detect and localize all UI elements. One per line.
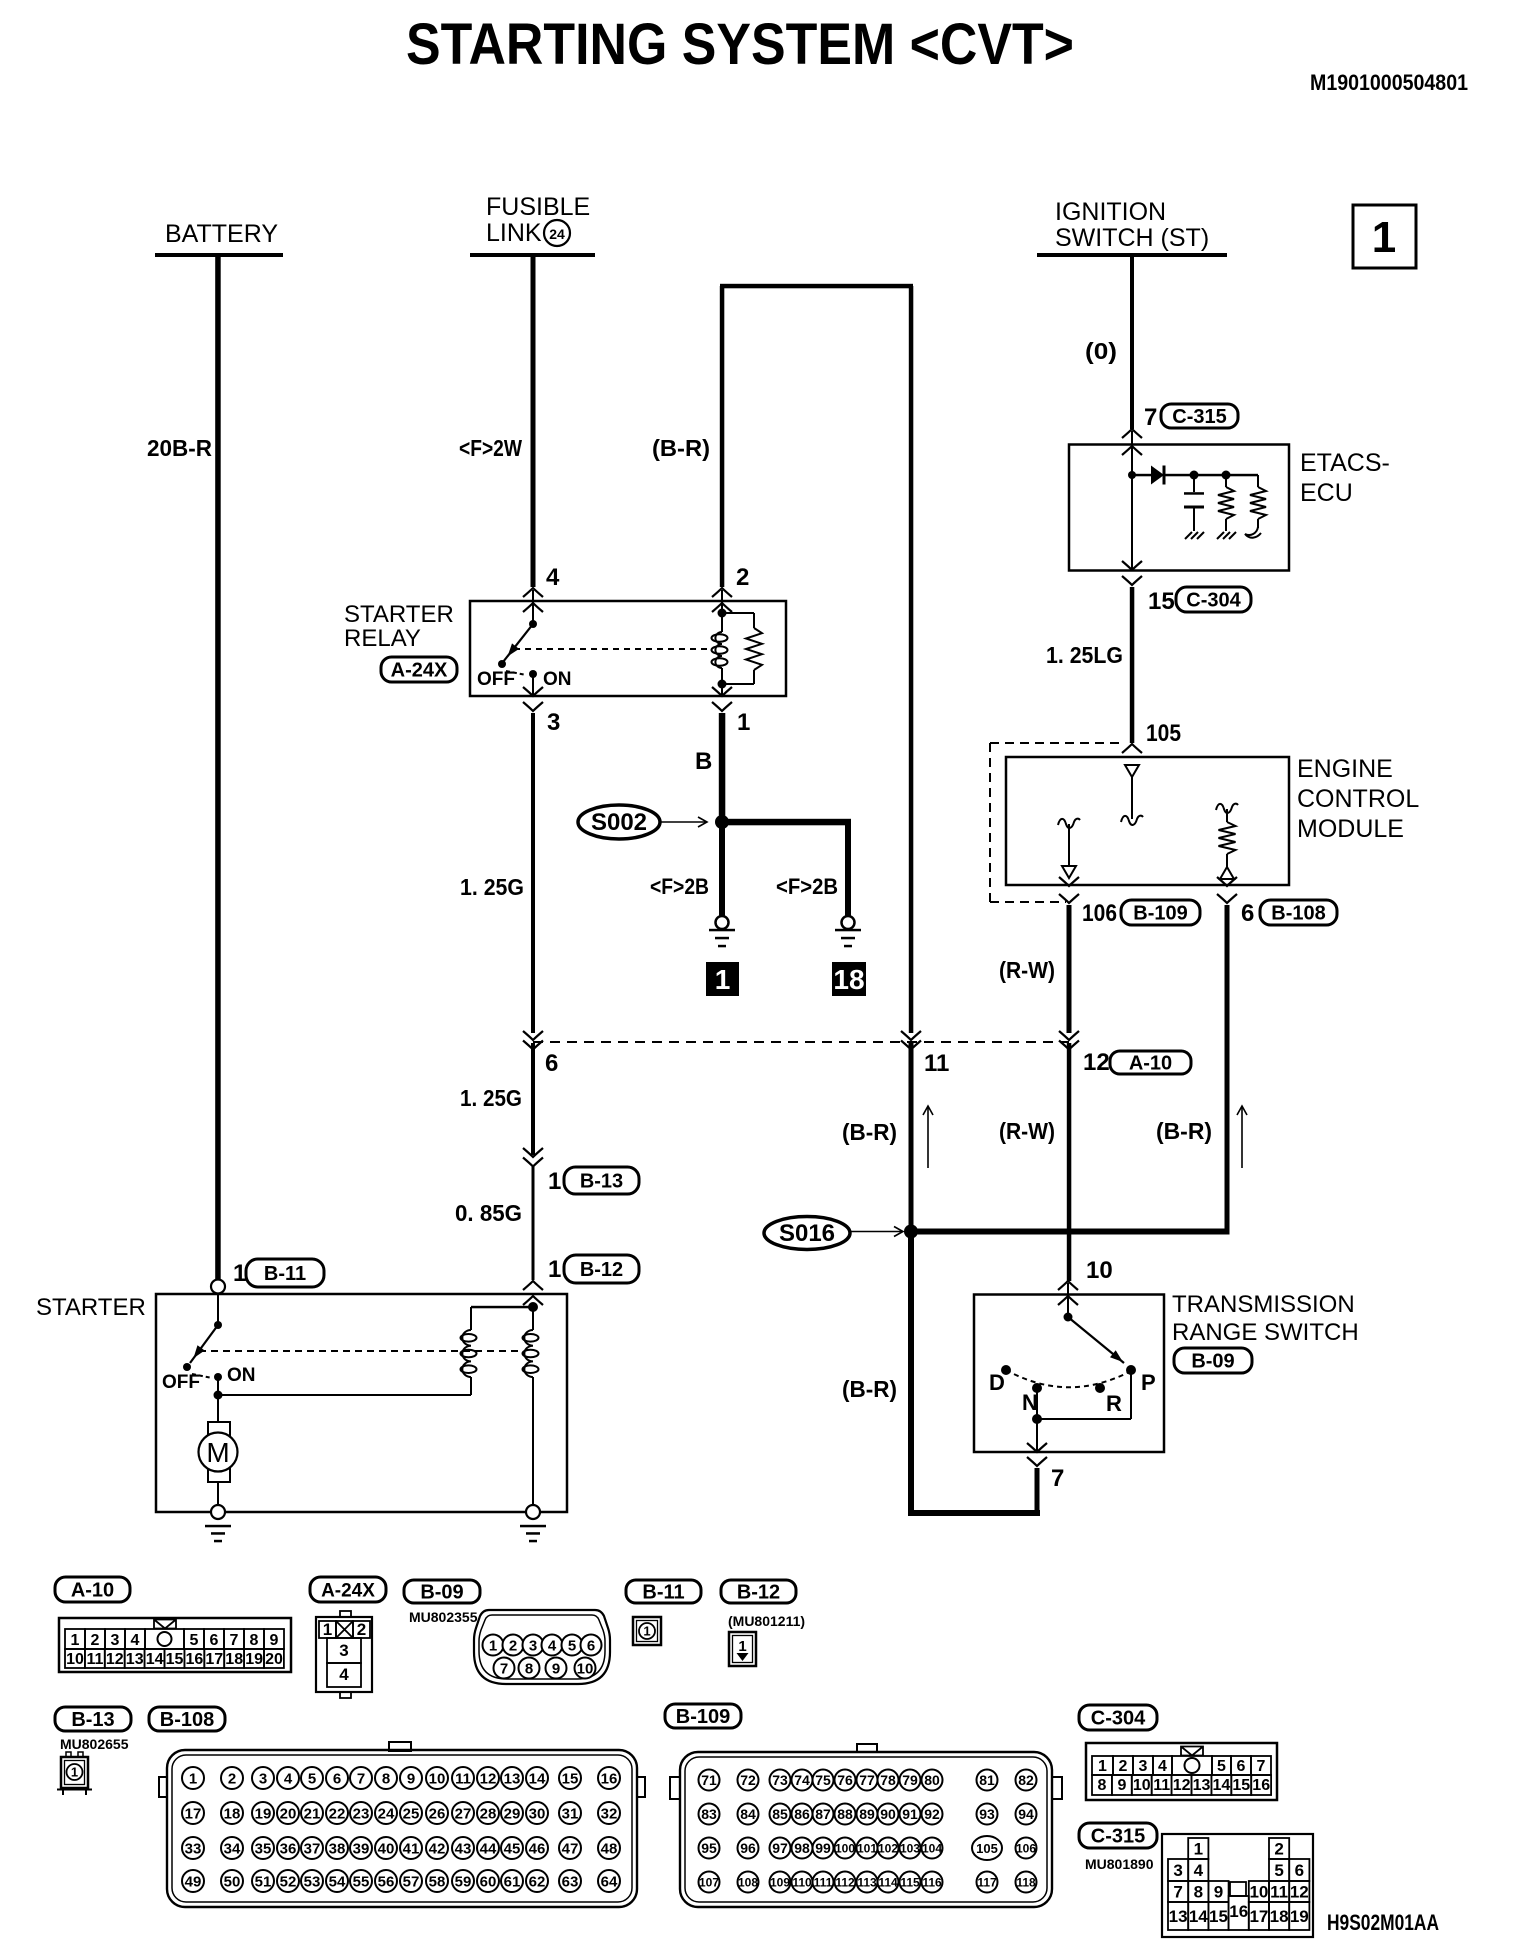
svg-text:7: 7 [500,1660,508,1677]
svg-text:5: 5 [1274,1861,1283,1880]
svg-text:16: 16 [1252,1777,1270,1794]
svg-text:LINK: LINK [486,219,542,247]
svg-text:C-315: C-315 [1172,406,1226,428]
svg-text:12: 12 [1083,1049,1110,1076]
svg-text:B-108: B-108 [1271,903,1325,925]
svg-text:26: 26 [429,1805,446,1822]
svg-text:15: 15 [1148,588,1175,615]
svg-text:1: 1 [189,1770,197,1787]
svg-text:111: 111 [814,1875,833,1889]
svg-text:1: 1 [715,964,731,995]
svg-text:72: 72 [740,1772,756,1788]
svg-text:RANGE SWITCH: RANGE SWITCH [1172,1319,1359,1346]
svg-text:11: 11 [924,1050,949,1077]
svg-text:51: 51 [255,1873,272,1890]
svg-text:90: 90 [880,1806,896,1822]
svg-text:17: 17 [185,1805,202,1822]
svg-text:4: 4 [546,564,560,591]
svg-text:6: 6 [587,1637,595,1654]
svg-text:4: 4 [548,1637,557,1654]
svg-text:91: 91 [902,1806,918,1822]
svg-text:108: 108 [738,1875,758,1889]
svg-text:4: 4 [339,1665,349,1684]
svg-text:6: 6 [333,1770,341,1787]
svg-text:1: 1 [548,1256,561,1283]
svg-text:14: 14 [1213,1777,1231,1794]
svg-text:1. 25LG: 1. 25LG [1046,642,1123,668]
svg-text:S016: S016 [779,1220,835,1247]
svg-text:57: 57 [403,1873,420,1890]
svg-text:6: 6 [545,1050,558,1077]
svg-text:6: 6 [1295,1861,1304,1880]
svg-text:107: 107 [699,1875,719,1889]
svg-text:1: 1 [71,1632,80,1649]
svg-text:116: 116 [922,1875,942,1889]
svg-text:19: 19 [1290,1907,1309,1926]
svg-text:11: 11 [1153,1777,1170,1794]
svg-text:17: 17 [205,1651,223,1668]
svg-text:(B-R): (B-R) [842,1376,897,1402]
svg-text:29: 29 [504,1805,521,1822]
svg-text:114: 114 [878,1875,898,1889]
svg-text:1: 1 [1098,1758,1107,1775]
svg-text:10: 10 [429,1770,446,1787]
svg-text:15: 15 [562,1770,579,1787]
svg-text:2: 2 [1274,1840,1283,1859]
svg-text:5: 5 [568,1637,576,1654]
svg-text:36: 36 [280,1840,297,1857]
svg-text:3: 3 [529,1637,537,1654]
svg-text:4: 4 [1158,1758,1167,1775]
svg-text:P: P [1141,1370,1156,1395]
svg-text:3: 3 [339,1641,348,1660]
svg-text:ECU: ECU [1300,479,1353,507]
svg-text:106: 106 [1082,900,1117,927]
svg-text:1: 1 [737,709,750,736]
svg-text:74: 74 [794,1772,810,1788]
svg-text:11: 11 [1270,1883,1288,1902]
svg-text:98: 98 [794,1840,810,1856]
svg-text:15: 15 [166,1651,184,1668]
svg-text:5: 5 [190,1632,199,1649]
svg-text:20B-R: 20B-R [147,435,212,461]
svg-text:14: 14 [1189,1907,1208,1926]
svg-text:60: 60 [480,1873,497,1890]
svg-text:4: 4 [131,1632,140,1649]
svg-text:C-304: C-304 [1186,590,1241,612]
svg-text:32: 32 [601,1805,618,1822]
svg-text:(0): (0) [1085,338,1117,364]
svg-text:78: 78 [880,1772,896,1788]
svg-text:24: 24 [549,226,565,242]
svg-text:1: 1 [1194,1840,1203,1859]
svg-text:40: 40 [378,1840,395,1857]
svg-text:94: 94 [1018,1806,1034,1822]
svg-text:104: 104 [922,1841,942,1855]
svg-text:110: 110 [792,1875,812,1889]
svg-text:14: 14 [529,1770,546,1787]
svg-text:3: 3 [1173,1861,1182,1880]
svg-text:5: 5 [1217,1758,1226,1775]
svg-text:2: 2 [1119,1758,1128,1775]
svg-text:9: 9 [552,1660,560,1677]
svg-text:9: 9 [407,1770,415,1787]
svg-text:76: 76 [837,1772,853,1788]
svg-text:<F>2B: <F>2B [650,874,709,899]
svg-text:7: 7 [1144,404,1157,431]
svg-text:C-304: C-304 [1091,1708,1146,1730]
svg-text:37: 37 [304,1840,321,1857]
svg-text:52: 52 [280,1873,297,1890]
svg-text:M: M [206,1437,229,1468]
svg-text:56: 56 [378,1873,395,1890]
svg-text:81: 81 [979,1772,995,1788]
svg-text:1: 1 [233,1260,246,1287]
svg-text:71: 71 [701,1772,717,1788]
svg-text:61: 61 [504,1873,521,1890]
svg-text:B-109: B-109 [1133,903,1187,925]
svg-text:14: 14 [146,1651,164,1668]
svg-text:63: 63 [562,1873,579,1890]
svg-text:16: 16 [601,1770,618,1787]
svg-text:7: 7 [1173,1883,1182,1902]
svg-text:S002: S002 [591,809,647,836]
svg-text:3: 3 [111,1632,120,1649]
svg-text:C-315: C-315 [1091,1826,1145,1848]
svg-text:10: 10 [1086,1257,1113,1284]
svg-text:100: 100 [835,1841,855,1855]
svg-text:(MU801211): (MU801211) [728,1613,805,1629]
svg-text:1. 25G: 1. 25G [460,1085,522,1111]
svg-text:82: 82 [1018,1772,1034,1788]
svg-text:73: 73 [772,1772,788,1788]
svg-text:RELAY: RELAY [344,625,421,652]
svg-text:STARTING SYSTEM <CVT>: STARTING SYSTEM <CVT> [406,12,1074,77]
svg-text:8: 8 [1098,1777,1107,1794]
svg-text:<F>2B: <F>2B [776,874,838,899]
svg-text:1: 1 [323,1620,332,1639]
svg-text:58: 58 [429,1873,446,1890]
svg-text:R: R [1106,1391,1122,1416]
svg-text:16: 16 [186,1651,204,1668]
svg-text:46: 46 [529,1840,546,1857]
svg-text:MU801890: MU801890 [1085,1856,1154,1872]
svg-text:2: 2 [736,564,749,591]
svg-text:ETACS-: ETACS- [1300,449,1390,477]
svg-text:B-13: B-13 [71,1709,114,1731]
svg-text:2: 2 [509,1637,517,1654]
svg-text:13: 13 [1193,1777,1211,1794]
svg-text:5: 5 [308,1770,316,1787]
svg-text:8: 8 [1194,1883,1203,1902]
svg-text:21: 21 [304,1805,321,1822]
svg-text:9: 9 [270,1632,279,1649]
svg-text:19: 19 [255,1805,272,1822]
svg-text:(R-W): (R-W) [999,957,1055,983]
svg-text:B-09: B-09 [420,1582,463,1604]
svg-text:105: 105 [1146,720,1181,747]
svg-text:64: 64 [601,1873,618,1890]
svg-text:22: 22 [329,1805,346,1822]
svg-text:B-11: B-11 [264,1263,306,1285]
svg-text:IGNITION: IGNITION [1055,198,1166,226]
svg-text:31: 31 [562,1805,579,1822]
svg-text:47: 47 [562,1840,579,1857]
svg-text:(R-W): (R-W) [999,1118,1055,1144]
svg-text:N: N [1022,1390,1038,1415]
svg-text:1: 1 [548,1168,561,1195]
svg-text:38: 38 [329,1840,346,1857]
svg-text:<F>2W: <F>2W [459,435,522,461]
svg-text:10: 10 [1249,1883,1268,1902]
svg-text:99: 99 [815,1840,831,1856]
svg-text:13: 13 [504,1770,521,1787]
svg-text:6: 6 [1241,900,1254,927]
svg-text:2: 2 [91,1632,100,1649]
svg-text:79: 79 [902,1772,918,1788]
svg-text:6: 6 [1237,1758,1246,1775]
svg-text:101: 101 [857,1841,877,1855]
svg-text:84: 84 [740,1806,756,1822]
svg-text:3: 3 [547,709,560,736]
svg-text:95: 95 [701,1840,717,1856]
svg-text:88: 88 [837,1806,853,1822]
svg-text:86: 86 [794,1806,810,1822]
svg-text:B-12: B-12 [580,1259,623,1281]
svg-text:9: 9 [1214,1883,1223,1902]
svg-text:MU802355: MU802355 [409,1609,478,1625]
svg-text:8: 8 [250,1632,259,1649]
svg-text:A-10: A-10 [71,1580,114,1602]
svg-text:9: 9 [1117,1777,1126,1794]
svg-text:55: 55 [353,1873,370,1890]
svg-text:10: 10 [577,1660,594,1677]
svg-text:77: 77 [859,1772,875,1788]
svg-text:ENGINE: ENGINE [1297,755,1393,783]
svg-text:TRANSMISSION: TRANSMISSION [1172,1291,1355,1318]
svg-text:FUSIBLE: FUSIBLE [486,193,590,221]
svg-text:15: 15 [1209,1907,1228,1926]
svg-text:12: 12 [1173,1777,1191,1794]
svg-text:1: 1 [71,1765,78,1780]
svg-text:3: 3 [1139,1758,1148,1775]
svg-text:43: 43 [455,1840,472,1857]
svg-text:41: 41 [403,1840,420,1857]
svg-text:48: 48 [601,1840,618,1857]
svg-text:2: 2 [357,1620,366,1639]
svg-text:89: 89 [859,1806,875,1822]
svg-text:75: 75 [815,1772,831,1788]
svg-text:(B-R): (B-R) [652,435,710,461]
svg-text:ON: ON [227,1365,256,1386]
svg-text:1: 1 [738,1638,746,1655]
svg-text:B-09: B-09 [1191,1351,1234,1373]
svg-text:11: 11 [86,1651,103,1668]
svg-text:10: 10 [66,1651,84,1668]
svg-text:33: 33 [185,1840,202,1857]
svg-text:7: 7 [230,1632,239,1649]
svg-text:(B-R): (B-R) [1156,1118,1212,1144]
svg-text:13: 13 [126,1651,144,1668]
svg-text:1: 1 [489,1637,497,1654]
svg-text:MODULE: MODULE [1297,815,1404,843]
svg-text:12: 12 [106,1651,124,1668]
svg-text:28: 28 [480,1805,497,1822]
svg-text:12: 12 [480,1770,497,1787]
svg-text:50: 50 [224,1873,241,1890]
svg-text:7: 7 [1051,1465,1064,1492]
svg-text:15: 15 [1232,1777,1250,1794]
svg-text:2: 2 [228,1770,236,1787]
svg-text:118: 118 [1016,1875,1036,1889]
svg-text:3: 3 [259,1770,267,1787]
svg-text:24: 24 [378,1805,395,1822]
svg-text:BATTERY: BATTERY [165,220,278,248]
svg-text:13: 13 [1169,1907,1188,1926]
svg-text:105: 105 [976,1841,998,1856]
svg-text:35: 35 [255,1840,272,1857]
svg-text:20: 20 [280,1805,297,1822]
svg-text:1: 1 [1372,213,1396,262]
svg-text:16: 16 [1229,1902,1248,1921]
svg-text:STARTER: STARTER [36,1294,146,1321]
svg-text:12: 12 [1290,1883,1309,1902]
svg-text:18: 18 [833,964,864,995]
svg-text:CONTROL: CONTROL [1297,785,1419,813]
svg-text:54: 54 [329,1873,346,1890]
svg-text:39: 39 [353,1840,370,1857]
svg-text:92: 92 [924,1806,940,1822]
svg-text:44: 44 [480,1840,497,1857]
svg-text:106: 106 [1016,1841,1036,1855]
svg-text:ON: ON [543,669,572,690]
svg-text:117: 117 [977,1875,997,1889]
svg-text:1. 25G: 1. 25G [460,874,524,900]
svg-text:MU802655: MU802655 [60,1736,129,1752]
svg-text:6: 6 [210,1632,219,1649]
svg-text:A-24X: A-24X [321,1580,375,1601]
svg-text:20: 20 [265,1651,283,1668]
svg-text:42: 42 [429,1840,446,1857]
svg-text:49: 49 [185,1873,202,1890]
svg-text:27: 27 [455,1805,472,1822]
svg-text:30: 30 [529,1805,546,1822]
svg-text:B-11: B-11 [642,1582,684,1604]
svg-text:B: B [695,748,712,775]
svg-text:113: 113 [857,1875,877,1889]
svg-text:B-109: B-109 [676,1706,730,1728]
svg-text:96: 96 [740,1840,756,1856]
svg-text:11: 11 [455,1770,471,1787]
svg-text:97: 97 [772,1840,788,1856]
svg-text:(B-R): (B-R) [842,1119,897,1145]
svg-text:B-108: B-108 [160,1709,214,1731]
svg-text:115: 115 [900,1875,920,1889]
svg-text:STARTER: STARTER [344,601,454,628]
svg-text:34: 34 [224,1840,241,1857]
svg-text:B-12: B-12 [737,1582,780,1604]
svg-text:18: 18 [225,1651,243,1668]
svg-text:23: 23 [353,1805,370,1822]
svg-text:62: 62 [529,1873,546,1890]
svg-text:8: 8 [525,1660,533,1677]
svg-text:87: 87 [815,1806,831,1822]
svg-text:45: 45 [504,1840,521,1857]
svg-text:D: D [989,1370,1005,1395]
svg-text:19: 19 [245,1651,263,1668]
svg-text:8: 8 [382,1770,390,1787]
svg-text:17: 17 [1249,1907,1268,1926]
svg-text:112: 112 [835,1875,855,1889]
svg-text:18: 18 [1270,1907,1289,1926]
svg-text:10: 10 [1133,1777,1151,1794]
svg-text:80: 80 [924,1772,940,1788]
svg-text:103: 103 [900,1841,920,1855]
svg-text:83: 83 [701,1806,717,1822]
svg-text:25: 25 [403,1805,420,1822]
svg-text:M1901000504801: M1901000504801 [1310,70,1468,95]
svg-text:SWITCH (ST): SWITCH (ST) [1055,224,1209,252]
svg-text:4: 4 [284,1770,293,1787]
svg-text:1: 1 [643,1624,650,1639]
svg-text:102: 102 [878,1841,898,1855]
svg-text:4: 4 [1194,1861,1204,1880]
svg-text:A-10: A-10 [1129,1053,1172,1075]
svg-text:93: 93 [979,1806,995,1822]
svg-text:18: 18 [224,1805,241,1822]
svg-text:7: 7 [1257,1758,1266,1775]
svg-text:109: 109 [770,1875,790,1889]
svg-text:7: 7 [357,1770,365,1787]
svg-text:53: 53 [304,1873,321,1890]
svg-text:59: 59 [455,1873,472,1890]
svg-text:B-13: B-13 [580,1171,623,1193]
svg-text:85: 85 [772,1806,788,1822]
svg-text:H9S02M01AA: H9S02M01AA [1327,1910,1439,1935]
svg-text:0. 85G: 0. 85G [455,1200,522,1226]
svg-text:A-24X: A-24X [391,660,448,682]
